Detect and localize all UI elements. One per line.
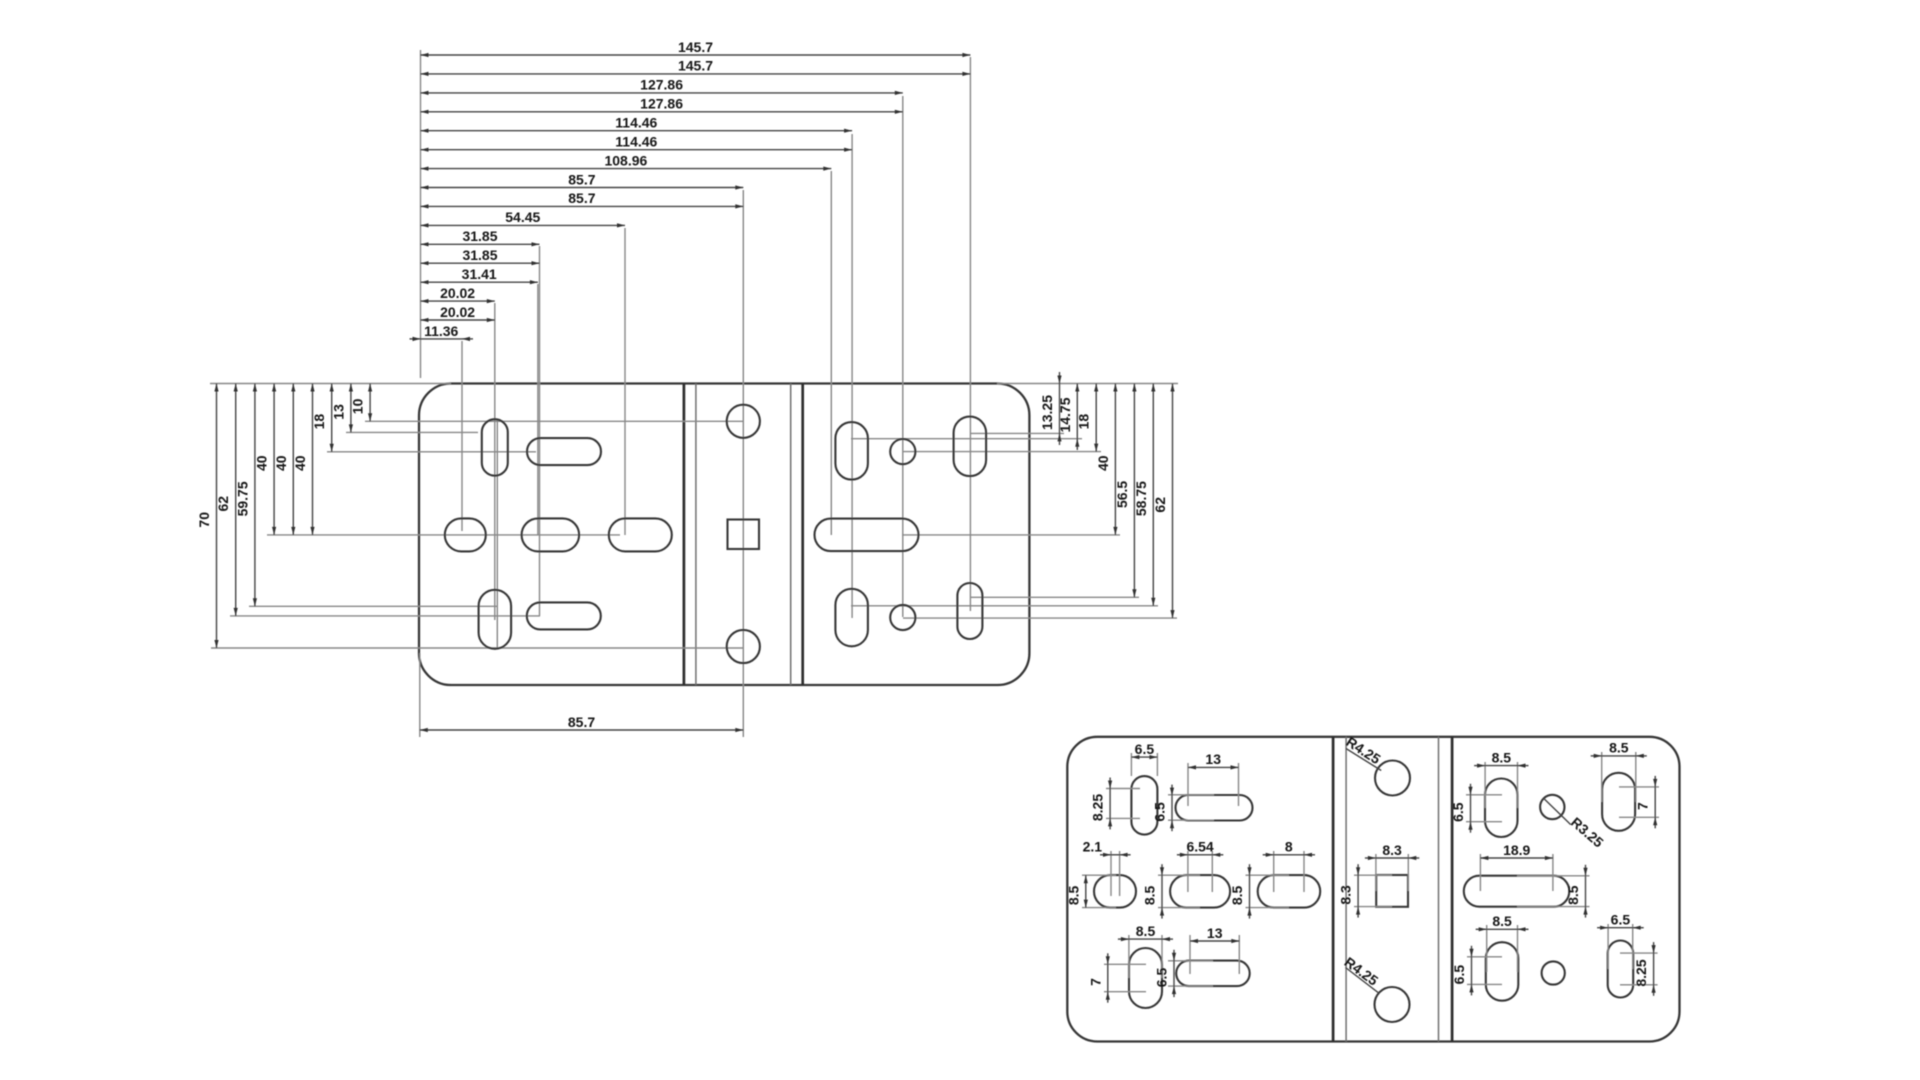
svg-text:R4.25: R4.25 [1343,733,1383,767]
detail dim 6.54 above D4 [1177,839,1223,857]
dim 20.02 horizontal row 15 [421,304,495,322]
dim 85.7 bottom [420,714,744,732]
dim 18 vertical left [311,384,334,452]
detail ext D7 width [1168,961,1213,986]
svg-text:58.75: 58.75 [1133,481,1149,516]
detail dim 7 right of D9 [1635,776,1658,828]
svg-text:40: 40 [254,455,270,471]
svg-text:13: 13 [1207,925,1223,941]
svg-text:54.45: 54.45 [505,209,540,225]
detail slot D5 oval middle-3 [1258,875,1321,908]
svg-text:8: 8 [1285,839,1293,855]
ext line y438.7 from right vslot [851,438,1082,440]
detail fold line right thick [1451,737,1454,1042]
detail slot D3 oval middle-1 [1094,875,1136,908]
slot S1 vertical top-left [482,419,508,476]
dim 70 vertical left [196,384,219,649]
svg-text:114.46: 114.46 [615,115,657,131]
dim 58.75 vertical right [1133,384,1156,606]
detail ext D5 8.5 [1246,875,1290,907]
svg-text:85.7: 85.7 [568,171,595,187]
detail fold line left thick [1332,737,1335,1042]
detail dim 6.5 left of D11 [1451,946,1474,996]
svg-text:7: 7 [1087,978,1103,986]
svg-text:13: 13 [330,404,346,420]
detail slot D10 long middle [1464,876,1570,907]
detail slot D11 vertical bottom-right [1486,942,1519,1001]
svg-text:8.5: 8.5 [1492,749,1512,765]
detail dim 8.5 above D6 [1118,923,1173,941]
svg-text:85.7: 85.7 [568,714,595,730]
detail dim 8.3 left of square [1338,864,1361,917]
svg-text:8.25: 8.25 [1633,959,1649,986]
slot S12 oval bottom-far-right [957,583,982,639]
ext line y432.4 to vslot top arc [346,431,478,433]
dim 13.25 vertical right [1039,372,1062,445]
svg-text:127.86: 127.86 [640,77,683,93]
ext line x831.3 long slot [830,171,832,535]
detail ext D4 8.5 [1158,875,1200,907]
svg-text:114.46: 114.46 [615,134,657,150]
ext line y597.3 from bottom oval [970,596,1139,598]
dim 40 vertical left [254,384,277,535]
label R4.25 top with leader [1343,733,1383,770]
detail circle R3.25 with slash [1540,795,1564,819]
slot S4 oval middle-2 [522,518,580,551]
dim 127.86 horizontal row 4 [421,96,903,114]
ext line y648 to bottom hinge circle [211,647,743,649]
detail dim 6.5 above D1 [1131,741,1157,759]
svg-text:18: 18 [1076,414,1092,430]
detail ext D6 7 [1104,964,1146,991]
svg-text:6.5: 6.5 [1611,912,1631,928]
ext line x743.3 hinge centerline [742,190,744,737]
detail ext D12 length [1620,953,1658,985]
svg-text:11.36: 11.36 [424,323,458,339]
ext line x497.3 slot centerline [496,420,498,648]
main view plate outline [419,384,1029,686]
detail dim 8.5 above D8 [1474,749,1528,767]
detail dim 8 above D5 [1263,839,1315,857]
detail ext D3 2.1 [1111,851,1120,896]
dim 31.85 horizontal row 12 [421,247,540,265]
svg-text:40: 40 [292,455,308,471]
detail ext D11 width [1487,925,1518,972]
ext line y534.9 middle row left [267,534,620,536]
detail dim 8.3 above square [1365,842,1419,860]
dim 108.96 horizontal row 7 [421,152,832,170]
detail ext square horiz [1376,854,1408,891]
hinge circle bottom [727,630,760,663]
ext line x970.4 right ovals [969,57,971,611]
ext line y605.8 from bottom vslot [851,605,1158,607]
ext line x494.8 slot centers [494,303,496,620]
ext line y615.9 to bottom hslot [230,615,540,617]
ext line x462 to oval1 [461,341,463,531]
detail ext D7 13 [1190,935,1239,974]
detail ext D10 width [1517,876,1590,907]
detail dim 8.5 above D9 [1591,740,1647,758]
svg-text:8.5: 8.5 [1136,923,1156,939]
detail ext D5 8 [1274,851,1304,892]
svg-text:13.25: 13.25 [1039,395,1055,430]
dim 54.45 horizontal row 10 [421,209,626,227]
svg-text:6.5: 6.5 [1135,741,1155,757]
detail dim 8.5 above D11 [1476,913,1529,931]
ext line x902.8 small circles [902,96,904,617]
detail dim 6.5 left of D7 [1154,950,1177,997]
dim 13 vertical left [330,384,353,433]
svg-text:62: 62 [1152,497,1168,513]
detail ext D11 length [1467,957,1502,985]
svg-text:8.5: 8.5 [1492,913,1512,929]
dim 20.02 horizontal row 14 [421,285,495,303]
svg-text:10: 10 [350,398,366,414]
detail ext D4 6.54 [1188,851,1212,892]
svg-text:6.5: 6.5 [1154,968,1170,988]
svg-text:6.5: 6.5 [1451,965,1467,985]
svg-text:8.3: 8.3 [1382,842,1402,858]
detail ext D1 width [1131,753,1157,776]
svg-text:59.75: 59.75 [234,481,250,516]
detail ext D8 length [1466,795,1502,822]
dim 145.7 horizontal row 1 [421,39,971,57]
dim 40 vertical right [1095,384,1118,535]
detail slot D9 oval top-right [1602,773,1635,831]
detail fold line right thin [1438,737,1440,1042]
detail dim 8.5 left of D3 [1065,875,1088,907]
svg-text:7: 7 [1635,802,1651,810]
dim 40 vertical left [273,384,296,535]
detail ext D12 width [1608,924,1633,969]
detail ext D6 8.5 [1129,935,1162,978]
detail dim 13 above D7 [1190,925,1239,943]
detail dim 6.5 left of D8 [1450,784,1473,833]
detail ext D3 8.5 [1082,875,1116,907]
detail view plate outline [1067,737,1679,1042]
small circle bottom-right [890,605,915,630]
dim 31.41 horizontal row 13 [421,266,538,284]
dim 85.7 horizontal row 8 [421,171,744,189]
slot S3 oval middle-1 [445,518,486,551]
ext line x852.1 right vslots [851,134,853,618]
svg-text:6.5: 6.5 [1152,802,1168,822]
detail square hole [1376,875,1408,907]
detail dim 8.25 right of D12 [1633,942,1656,996]
svg-text:R4.25: R4.25 [1342,954,1382,989]
detail dim 18.9 above D10 [1480,842,1553,860]
slot S11 vertical bottom-right [835,589,868,647]
detail dim 6.5 above D12 [1597,912,1644,930]
slot S10 long middle-right [815,519,919,552]
detail dim 2.1 above D3 [1083,839,1131,857]
small circle top-right [890,439,915,464]
dim 127.86 horizontal row 3 [421,77,903,95]
detail ext D10 length [1480,854,1553,891]
dim 59.75 vertical left [234,384,257,607]
dim 18 vertical right [1076,384,1099,452]
detail ext D2 width [1168,795,1214,820]
ext line y451.6 from small circle [903,451,1101,453]
slot S2 horizontal top [527,438,601,465]
svg-text:2.1: 2.1 [1083,839,1103,855]
svg-text:8.25: 8.25 [1090,794,1106,821]
detail slot D1 vertical top-left [1131,776,1157,835]
detail slot D2 horizontal top [1176,795,1253,821]
main fold line left thick [683,384,686,686]
detail hinge circle bottom [1375,987,1410,1022]
ext line y618.1 from bottom circle [903,617,1177,619]
svg-text:6.54: 6.54 [1186,839,1213,855]
label R4.25 bottom with leader [1342,954,1382,994]
svg-text:8.5: 8.5 [1565,885,1581,905]
svg-text:R3.25: R3.25 [1568,814,1607,851]
svg-text:8.3: 8.3 [1338,885,1354,905]
slot S6 vertical bottom-left [479,590,512,649]
label R3.25 with slash leader [1544,798,1607,850]
main fold line right thin [790,384,792,686]
svg-text:127.86: 127.86 [640,96,683,112]
detail ext D1 length [1106,789,1140,819]
detail ext D2 length [1188,763,1239,806]
svg-text:85.7: 85.7 [568,190,595,206]
ext line y383.5 left connector [210,383,451,385]
svg-text:70: 70 [196,512,212,528]
svg-text:62: 62 [215,496,231,512]
dim 11.36 horizontal row 16 [410,323,474,341]
detail dim 8.5 left of D4 [1142,864,1165,918]
detail ext D8 width [1485,762,1517,808]
dim 145.7 horizontal row 2 [421,58,971,76]
detail slot D4 oval middle-2 [1170,875,1230,908]
ext line y534.9 middle row right [902,534,1120,536]
ext line x537.9 oval2 [537,284,539,535]
detail dim 8.5 left of D5 [1229,864,1252,918]
svg-text:14.75: 14.75 [1057,397,1073,432]
ext line y421.3 to top hinge circle [365,420,743,422]
svg-text:145.7: 145.7 [678,39,713,55]
square hole center [728,520,760,550]
svg-text:8.5: 8.5 [1609,740,1629,756]
detail slot D8 vertical top-right [1485,779,1518,838]
dim 56.5 vertical right [1114,384,1137,598]
dim 10 vertical left [350,384,373,422]
svg-text:108.96: 108.96 [604,152,647,168]
dim 14.75 vertical right [1057,384,1080,451]
hinge circle top [727,405,760,438]
dim 62 vertical right [1152,384,1175,619]
svg-text:31.85: 31.85 [462,228,497,244]
main fold line right thick [801,384,804,686]
svg-text:31.85: 31.85 [462,247,497,263]
svg-text:13: 13 [1205,751,1221,767]
dim 31.85 horizontal row 11 [421,228,540,246]
svg-text:31.41: 31.41 [462,266,497,282]
ext line y433.4 from right oval [970,432,1064,434]
svg-text:145.7: 145.7 [678,58,713,74]
detail dim 13 above D2 [1188,751,1239,769]
slot S7 horizontal bottom [527,602,601,629]
svg-text:6.5: 6.5 [1450,802,1466,822]
dim 62 vertical left [215,384,238,616]
detail dim 6.5 left of D2 [1152,785,1175,832]
svg-text:40: 40 [273,455,289,471]
dim 114.46 horizontal row 6 [421,134,853,152]
dim 40 vertical left [292,384,315,535]
detail slot D12 oval bottom-right [1608,941,1634,998]
detail ext D9 length [1619,787,1659,817]
detail hinge circle top [1375,761,1410,796]
svg-text:8.5: 8.5 [1065,885,1081,905]
slot S9 oval top-far-right [954,417,987,477]
detail fold line left thin [1345,737,1347,1042]
slot S8 vertical top-right [835,422,868,480]
ext line x419.8 bottom-left [419,653,421,737]
svg-text:40: 40 [1095,455,1111,471]
ext line y383.5 right connector [997,383,1178,385]
detail slot D7 horizontal bottom [1176,961,1250,987]
dim 114.46 horizontal row 5 [421,115,853,133]
ext line y451.8 to top hslot [327,451,536,453]
detail slot D6 vertical bottom-left [1129,948,1162,1008]
svg-text:8.5: 8.5 [1229,885,1245,905]
svg-text:18.9: 18.9 [1503,842,1530,858]
dim 85.7 horizontal row 9 [421,190,744,208]
svg-text:20.02: 20.02 [440,285,475,301]
ext line x625 oval3 [624,228,626,535]
detail ext D9 width [1602,752,1636,802]
detail small circle bottom [1542,961,1565,984]
detail dim 8.25 left of D1 [1090,778,1113,830]
svg-text:8.5: 8.5 [1142,885,1158,905]
detail ext square vert [1354,875,1392,906]
ext line x539.5 hslots [539,246,541,616]
ext line y606.3 to bottom vslot [249,605,497,607]
svg-text:56.5: 56.5 [1114,481,1130,508]
slot S5 oval middle-3 [609,518,672,551]
main fold line left thin [695,384,697,686]
detail dim 7 left of D6 [1087,953,1110,1002]
detail dim 8.5 right of D10 [1565,865,1588,918]
svg-text:18: 18 [311,414,327,430]
svg-text:20.02: 20.02 [440,304,475,320]
ext line x420 plate-left datum [420,50,422,378]
